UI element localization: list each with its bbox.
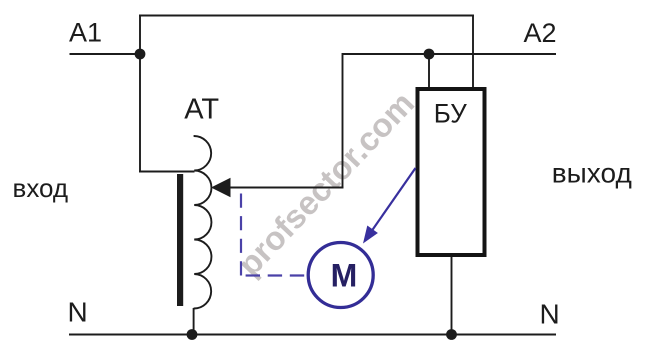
BU control unit box [418,89,485,255]
svg-text:M: M [331,257,358,293]
motor M circle [308,243,373,308]
junction dot bottom left [187,329,198,340]
wire top horizontal L1-to-right [139,15,474,17]
wiper arrowhead [211,178,231,197]
svg-text:БУ: БУ [434,99,468,129]
wire horizontal to coil top [139,171,195,173]
wire coil bottom lead [193,308,195,335]
wire bottom N [69,334,556,336]
autotransformer AT core bar [177,174,183,306]
wire wiper horizontal to arrow [228,187,343,189]
blue dashed link horizontal [241,274,305,276]
svg-text:N: N [68,297,88,328]
svg-text:A1: A1 [69,18,102,48]
junction dot A2 [424,49,435,60]
svg-text:вход: вход [13,173,69,203]
blue control arrow line from BU to motor [372,168,416,231]
svg-text:АТ: АТ [184,93,219,125]
blue control arrowhead [363,226,378,244]
wire BU bottom lead [451,256,453,335]
svg-text:N: N [540,299,560,330]
svg-text:выход: выход [552,158,632,189]
wire vertical left x=140 [139,15,141,173]
autotransformer AT winding coil [194,136,212,309]
wire A1 lead [70,53,141,55]
svg-text:A2: A2 [524,18,557,48]
wire vertical from A2 junction to BU box top [428,54,430,88]
wire vertical x=342.5 down [342,53,344,188]
blue dashed link vertical [240,194,242,276]
junction dot A1 [135,49,146,60]
wire A2 horizontal [343,53,557,55]
junction dot bottom right [446,329,457,340]
wire vertical right x=473 down to BU box [472,15,474,89]
